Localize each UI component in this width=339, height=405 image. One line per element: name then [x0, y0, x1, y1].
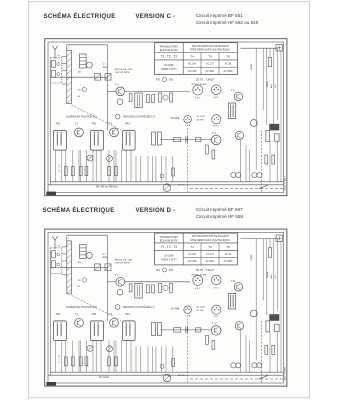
electrolytic capacitor C10: [276, 45, 282, 51]
transistor T4: [211, 135, 221, 145]
svg-text:AG: AG: [78, 71, 81, 74]
pad circle P6: [82, 87, 86, 91]
svg-text:T1 , T2 , T3: T1 , T2 , T3: [161, 55, 178, 59]
terminal circle A: [231, 172, 236, 177]
svg-text:CES TRANSISTORS NE PEUVENT: CES TRANSISTORS NE PEUVENT: [192, 235, 230, 238]
gang section C2: [52, 261, 56, 268]
svg-text:ALIM. 9V BATT.: ALIM. 9V BATT.: [284, 175, 287, 190]
svg-text:E B C: E B C: [195, 288, 201, 290]
ferrite rod antenna winding: [67, 241, 72, 294]
gang section C2: [52, 70, 56, 77]
svg-text:C E B: C E B: [185, 315, 191, 317]
svg-text:Circuit imprimé HF 552 ou 545: Circuit imprimé HF 552 ou 545: [196, 20, 259, 25]
svg-text:AC 9628: AC 9628: [224, 70, 234, 73]
switch circle: [163, 78, 167, 82]
svg-text:AC 127: AC 127: [206, 63, 214, 66]
resistor R15: [172, 168, 175, 176]
IF transformer TR1: [54, 131, 67, 151]
table row divider: [183, 257, 237, 259]
capacitor C5: [152, 285, 155, 293]
svg-text:T 4: T 4: [212, 131, 216, 135]
svg-text:T 1: T 1: [115, 273, 119, 277]
transistor equivalence table outline: [155, 43, 238, 75]
svg-text:E B C: E B C: [214, 97, 220, 99]
svg-text:H.P.: H.P.: [275, 274, 277, 278]
transistor T2: [75, 318, 84, 327]
wire AF line: [161, 139, 212, 141]
svg-text:T1 , T2 , T3: T1 , T2 , T3: [161, 245, 178, 249]
svg-text:T 2: T 2: [75, 123, 79, 126]
banner circle: [115, 305, 120, 310]
trimmer capacitor C4: [105, 74, 111, 81]
svg-text:TRANSISTORS: TRANSISTORS: [160, 235, 179, 239]
output transformer winding: [266, 131, 279, 142]
vertical wire drops to bus: [56, 341, 173, 373]
schematic frame inner border: [48, 232, 284, 383]
wire top rail: [67, 44, 108, 46]
driver transformer: [228, 293, 235, 309]
svg-text:E B C: E B C: [195, 98, 201, 100]
svg-text:AC 96: AC 96: [225, 63, 232, 66]
bus wire 1: [50, 181, 283, 183]
capacitor C9: [160, 174, 164, 178]
mixer circle: [86, 62, 92, 68]
svg-text:VERSION D -: VERSION D -: [136, 208, 176, 214]
svg-text:T6: T6: [226, 245, 230, 249]
ferrite rod antenna winding: [67, 51, 72, 104]
svg-text:T6: T6: [226, 54, 230, 58]
resistor R5: [64, 167, 67, 176]
svg-text:T 1: T 1: [115, 82, 119, 86]
svg-text:AC 148: AC 148: [188, 253, 196, 256]
dashed pointer line: [72, 105, 122, 130]
svg-text:Circuit imprimé HF 558: Circuit imprimé HF 558: [196, 214, 243, 219]
svg-text:NTE66 TJA/TT: NTE66 TJA/TT: [161, 258, 177, 261]
resistor R11: [174, 328, 181, 332]
pinout circle 2: [212, 275, 222, 285]
resistor R6: [71, 357, 74, 366]
switch circle: [163, 268, 167, 272]
svg-text:E B C: E B C: [214, 126, 220, 128]
transistor T5: [234, 283, 242, 291]
supply wires vertical: [256, 239, 277, 321]
wire gang down: [49, 250, 51, 375]
table column divider: [182, 43, 184, 75]
pinout circle 1: [193, 85, 203, 95]
svg-text:SCHÉMA EN POSITION GO: SCHÉMA EN POSITION GO: [66, 116, 97, 119]
pad circle P6: [82, 278, 86, 282]
resistor R9: [115, 357, 118, 366]
svg-text:AV. ALIM: AV. ALIM: [99, 376, 109, 379]
transistor T4: [211, 326, 221, 336]
resistor R5: [64, 357, 67, 366]
resistor R3: [158, 283, 161, 292]
resistor R6: [71, 167, 74, 176]
terminal circle B: [236, 363, 241, 368]
svg-text:AC 132K: AC 132K: [197, 115, 206, 118]
wire out of T1: [125, 281, 190, 283]
wire into T1: [107, 281, 116, 283]
mixer circle: [86, 252, 92, 258]
terminal circle D: [257, 363, 262, 368]
resistor R10: [157, 132, 161, 145]
capacitor C7: [152, 322, 156, 335]
bus wire 2: [48, 184, 283, 186]
capacitor C6: [85, 357, 88, 366]
schematic frame inner border: [48, 42, 284, 193]
transistor T1: [116, 277, 125, 286]
resistor R17: [265, 345, 268, 354]
schematic version C: [45, 39, 287, 196]
detector diode circle: [87, 345, 93, 351]
dashed board separator right: [260, 131, 262, 193]
terminal circle C: [252, 172, 257, 177]
svg-text:AC1ER AC1BE: AC1ER AC1BE: [192, 83, 208, 86]
oscillator coil L3: [135, 283, 142, 298]
svg-text:TR1: TR1: [56, 123, 61, 126]
svg-text:H.P.: H.P.: [275, 84, 277, 88]
svg-text:AC 96: AC 96: [225, 253, 232, 256]
resistor R16: [268, 248, 271, 257]
schematic frame outer border: [45, 229, 287, 386]
svg-text:Circuit imprimé BF 567: Circuit imprimé BF 567: [196, 207, 243, 212]
long vertical wire: [106, 45, 108, 131]
pinout circle 2: [212, 85, 222, 95]
svg-text:AC 132K: AC 132K: [197, 306, 206, 309]
wire rod to top rail: [66, 45, 68, 51]
resistor R18: [272, 155, 275, 164]
svg-text:PRISE: PRISE: [251, 254, 253, 261]
table column divider: [200, 53, 202, 75]
bus wire 2: [48, 374, 283, 376]
svg-text:ÊTRE REMPLACÉS QUE PAR ÉQUIV.: ÊTRE REMPLACÉS QUE PAR ÉQUIV.: [190, 239, 230, 242]
svg-text:ÊTRE REMPLACÉS QUE PAR ÉQUIV.: ÊTRE REMPLACÉS QUE PAR ÉQUIV.: [190, 49, 230, 52]
svg-text:T4: T4: [190, 245, 194, 249]
resistor R14: [212, 340, 215, 349]
trimmer capacitor C3: [95, 264, 101, 271]
capacitor C8: [186, 137, 188, 143]
svg-text:T 5: T 5: [231, 279, 235, 283]
output transformer winding: [266, 321, 279, 332]
pad circle: [163, 285, 168, 290]
wire mid rail: [50, 76, 107, 78]
pad circle T6 base: [250, 310, 257, 317]
trimmer dot 1: [57, 253, 60, 256]
svg-text:CV: CV: [57, 245, 61, 247]
resistor R2: [146, 285, 149, 293]
capacitor C8: [186, 327, 188, 333]
wire into T1: [107, 90, 116, 92]
resistor R8: [108, 357, 111, 366]
resistor R12: [196, 137, 201, 141]
output transformer core: [269, 314, 279, 321]
oscillator coil L2: [80, 244, 87, 258]
banner circle: [115, 114, 120, 119]
tuning gang dashed box: [50, 58, 62, 84]
table row divider: [155, 52, 238, 54]
svg-text:2N 3338: 2N 3338: [171, 309, 180, 311]
supply rail top: [241, 47, 278, 49]
svg-text:2N 3338: 2N 3338: [171, 118, 180, 120]
table row divider: [155, 249, 238, 251]
IF transformer TR3: [123, 131, 136, 151]
table row divider: [155, 59, 238, 61]
svg-text:2N 1308: 2N 1308: [188, 261, 197, 263]
resistor R7: [79, 357, 82, 366]
resistor R4: [170, 93, 173, 102]
svg-text:CIRCUIT IMPR.: CIRCUIT IMPR.: [115, 263, 131, 265]
svg-text:C.T. 7%: C.T. 7%: [59, 164, 61, 172]
transistor T5: [234, 92, 242, 100]
svg-text:PAS DE LIA. SUR: PAS DE LIA. SUR: [115, 68, 133, 71]
trimmer capacitor C3: [95, 74, 101, 81]
long vertical wire: [106, 235, 108, 321]
resistor R2: [146, 95, 149, 103]
AGC pot circle: [107, 346, 113, 352]
oscillator coil L3: [135, 93, 142, 108]
power switch: [259, 185, 268, 189]
bus wire 3 dashed: [190, 378, 283, 380]
svg-text:Circuit imprimé BF 551: Circuit imprimé BF 551: [196, 13, 243, 18]
svg-text:T 4: T 4: [212, 322, 216, 326]
svg-text:AC1ER AC1BE: AC1ER AC1BE: [192, 273, 208, 276]
resistor R11: [174, 137, 181, 141]
page number block: [46, 192, 56, 196]
svg-text:T 5: T 5: [231, 88, 235, 92]
svg-text:CADRE: CADRE: [266, 271, 269, 279]
svg-text:AC 127: AC 127: [206, 253, 214, 256]
dashed board separator left: [186, 128, 188, 192]
pinout circle 3: [184, 306, 192, 314]
svg-text:E B C: E B C: [214, 288, 220, 290]
terminal circle C: [252, 363, 257, 368]
svg-text:AC 78K: AC 78K: [197, 309, 205, 312]
resistor R13: [206, 335, 209, 344]
svg-text:TR2: TR2: [92, 123, 97, 126]
resistor R7: [79, 167, 82, 176]
wire top rail: [67, 234, 108, 236]
svg-text:AGC: AGC: [103, 66, 108, 69]
IF transformer TR2: [91, 131, 104, 151]
table column divider: [218, 53, 220, 75]
svg-text:TR3: TR3: [125, 123, 130, 126]
transistor T2: [75, 128, 84, 137]
IF transformer TR2: [91, 321, 104, 341]
wire gang down: [49, 60, 51, 185]
trimmer dot 2: [57, 263, 60, 266]
resistor R3: [158, 93, 161, 102]
svg-text:93 T5 TJA/1T: 93 T5 TJA/1T: [196, 268, 215, 272]
right column wire drops: [241, 50, 282, 182]
trimmer capacitor C4: [105, 264, 111, 271]
svg-text:2N 1308: 2N 1308: [188, 71, 197, 73]
electrolytic capacitor C10: [276, 235, 282, 241]
transistor T3: [110, 318, 119, 327]
transistor T1: [116, 87, 125, 96]
svg-text:33 T6 TJA/5T: 33 T6 TJA/5T: [196, 78, 215, 82]
driver transformer: [228, 103, 235, 119]
power switch: [259, 375, 268, 379]
table row divider: [183, 66, 237, 68]
potentiometer volume: [163, 184, 171, 192]
pad circle T6 base: [250, 120, 257, 127]
svg-text:2N 1088: 2N 1088: [164, 64, 174, 67]
svg-text:TR1: TR1: [56, 313, 61, 316]
output transformer core: [269, 124, 279, 131]
dashed pointer line: [72, 295, 122, 320]
resistor R8: [108, 167, 111, 176]
supply rail top: [241, 238, 278, 240]
svg-text:T5: T5: [208, 54, 212, 58]
tuning gang dashed box: [50, 248, 62, 274]
svg-text:C.T. 7%: C.T. 7%: [59, 355, 61, 363]
vertical wire drops to bus: [56, 150, 173, 182]
svg-text:C.r: C.r: [103, 62, 106, 65]
rod tap wires: [62, 57, 67, 85]
resistor R17: [265, 155, 268, 164]
oscillator coil L2: [80, 54, 87, 68]
svg-text:T 3: T 3: [109, 313, 113, 316]
capacitor C7: [152, 132, 156, 145]
resistor R12: [196, 328, 201, 332]
table column divider: [218, 243, 220, 265]
wire out of T1: [125, 90, 190, 92]
svg-text:ANT.: ANT.: [270, 83, 273, 88]
transistor T3: [110, 128, 119, 137]
svg-text:AC 148: AC 148: [188, 63, 196, 66]
schematic frame outer border: [45, 39, 287, 196]
right column wire drops: [241, 240, 282, 372]
resistor R9: [115, 167, 118, 176]
pad circle: [163, 95, 168, 100]
svg-text:CV: CV: [57, 55, 61, 57]
svg-text:AC 9011: AC 9011: [206, 260, 215, 263]
svg-text:SCHÉMA ÉLECTRIQUE: SCHÉMA ÉLECTRIQUE: [43, 206, 115, 214]
svg-text:NTE66 TJA/TT: NTE66 TJA/TT: [161, 68, 177, 71]
svg-text:T 2: T 2: [75, 313, 79, 316]
capacitor C6: [85, 167, 88, 176]
svg-text:AGC: AGC: [103, 256, 108, 259]
svg-text:T4: T4: [190, 54, 194, 58]
svg-text:MF. 452 ou 455 Kc/s: MF. 452 ou 455 Kc/s: [96, 185, 119, 188]
svg-text:PRISE: PRISE: [251, 63, 253, 70]
terminal circle B: [236, 172, 241, 177]
detector diode circle: [87, 155, 93, 161]
trimmer dot 2: [57, 73, 60, 76]
resistor R18: [272, 345, 275, 354]
resistor R1: [129, 284, 132, 292]
svg-text:AC 9011: AC 9011: [206, 70, 215, 73]
pinout circle 1: [193, 275, 203, 285]
ferrite rod hatching: [67, 242, 72, 293]
AGC pot circle: [107, 155, 113, 161]
potentiometer volume: [163, 374, 171, 382]
IF transformer TR1: [54, 321, 67, 341]
svg-text:T5: T5: [208, 245, 212, 249]
antenna: [52, 236, 57, 249]
svg-text:SCHÉMA ÉLECTRIQUE: SCHÉMA ÉLECTRIQUE: [44, 12, 116, 20]
svg-text:AC 9628: AC 9628: [224, 260, 234, 263]
schematic version D: [45, 229, 287, 386]
supply wires vertical: [256, 48, 277, 130]
bus wire 3 dashed: [190, 188, 283, 190]
svg-text:CADRE: CADRE: [266, 80, 269, 88]
transistor T6: [235, 322, 243, 330]
wire AF line: [161, 329, 212, 331]
svg-text:AC 78K: AC 78K: [197, 118, 205, 121]
dashed board separator right: [260, 321, 262, 383]
capacitor C9: [160, 364, 164, 368]
trimmer dot 1: [57, 63, 60, 66]
resistor R1: [129, 94, 132, 102]
svg-text:TR2: TR2: [92, 313, 97, 316]
resistor R16: [268, 57, 271, 66]
resistor R10: [157, 322, 161, 335]
svg-text:AG: AG: [78, 261, 81, 264]
resistor R15: [172, 358, 175, 366]
wire rod to top rail: [66, 235, 68, 241]
pinout circle 4: [212, 115, 221, 124]
pad circle below T1: [117, 99, 123, 105]
gang section C1: [52, 251, 56, 258]
resistor R4: [170, 283, 173, 292]
svg-text:TR3: TR3: [125, 313, 130, 316]
svg-text:SCHÉMA EN POSITION GO: SCHÉMA EN POSITION GO: [66, 306, 97, 309]
svg-text:E B C: E B C: [214, 316, 220, 318]
terminal circle A: [231, 363, 236, 368]
pinout circle 4: [212, 305, 221, 314]
svg-text:ANT.: ANT.: [270, 274, 273, 279]
gang section C1: [52, 60, 56, 67]
svg-text:ALIM. 9V BATT.: ALIM. 9V BATT.: [284, 366, 287, 381]
IF transformer TR3: [123, 321, 136, 341]
wire mid rail: [50, 267, 107, 269]
table row divider: [155, 242, 238, 244]
svg-text:TENSIONS CONTRÔLÉES (*): TENSIONS CONTRÔLÉES (*): [123, 306, 156, 309]
rod tap wires: [62, 247, 67, 275]
svg-text:C.r: C.r: [103, 253, 106, 256]
page number block: [46, 382, 56, 386]
transistor equivalence table outline: [155, 233, 238, 265]
resistor R14: [212, 150, 215, 159]
antenna: [52, 46, 57, 59]
svg-text:CIRCUIT IMPR.: CIRCUIT IMPR.: [115, 72, 131, 74]
svg-text:C E B: C E B: [185, 125, 191, 127]
resistor R13: [206, 145, 209, 154]
pad circle below T1: [117, 289, 123, 295]
svg-text:T 3: T 3: [109, 123, 113, 126]
svg-text:CES TRANSISTORS NE PEUVENT: CES TRANSISTORS NE PEUVENT: [192, 45, 230, 48]
pinout circle 3: [184, 116, 192, 124]
svg-text:VERSION C -: VERSION C -: [136, 14, 176, 20]
table column divider: [182, 233, 184, 265]
capacitor C5: [152, 95, 155, 103]
transistor T6: [235, 131, 243, 139]
svg-text:TENSIONS CONTRÔLÉES (*): TENSIONS CONTRÔLÉES (*): [123, 116, 156, 119]
svg-text:TRANSISTORS: TRANSISTORS: [160, 45, 179, 49]
terminal circle D: [257, 172, 262, 177]
svg-text:2N 1088: 2N 1088: [164, 254, 174, 257]
ferrite rod hatching: [67, 52, 72, 103]
bus wire 1: [50, 371, 283, 373]
svg-text:PAS DE LIA. SUR: PAS DE LIA. SUR: [115, 258, 133, 261]
dashed board separator left: [186, 318, 188, 382]
table column divider: [200, 243, 202, 265]
